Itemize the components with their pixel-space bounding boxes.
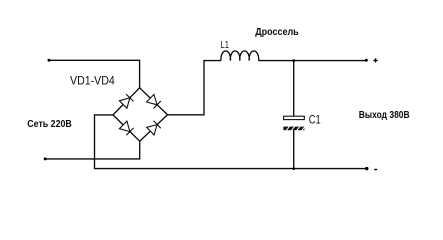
svg-text:C1: C1: [309, 112, 321, 126]
svg-text:L1: L1: [221, 39, 230, 51]
svg-text:Выход 380В: Выход 380В: [359, 110, 410, 121]
svg-text:Дроссель: Дроссель: [255, 26, 299, 38]
svg-text:Сеть 220В: Сеть 220В: [27, 118, 72, 130]
svg-text:VD1-VD4: VD1-VD4: [70, 76, 115, 88]
